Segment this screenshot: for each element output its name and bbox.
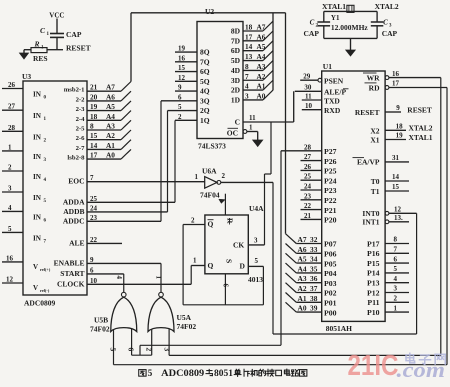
svg-text:4Q: 4Q [200, 87, 210, 96]
svg-text:X2: X2 [370, 126, 379, 135]
svg-text:V: V [33, 263, 38, 271]
svg-text:39: 39 [310, 304, 318, 313]
svg-text:5: 5 [394, 265, 398, 273]
svg-text:27: 27 [8, 103, 16, 111]
svg-text:1: 1 [193, 257, 197, 265]
svg-text:3: 3 [163, 348, 172, 352]
svg-text:2-2: 2-2 [76, 96, 86, 103]
svg-text:9: 9 [178, 84, 182, 92]
svg-text:21: 21 [304, 212, 312, 220]
svg-text:13.: 13. [394, 214, 403, 222]
svg-text:A5: A5 [106, 102, 115, 111]
svg-text:XTAL2: XTAL2 [375, 2, 399, 11]
svg-text:U4A: U4A [249, 204, 264, 213]
svg-text:A6: A6 [106, 92, 115, 101]
svg-text:A7: A7 [298, 235, 307, 244]
svg-text:1: 1 [8, 143, 12, 151]
svg-text:EOC: EOC [68, 177, 84, 186]
svg-text:P27: P27 [324, 147, 337, 156]
svg-text:CAP: CAP [382, 29, 398, 38]
svg-text:RESET: RESET [355, 108, 380, 117]
svg-text:START: START [60, 269, 84, 278]
svg-text:2D: 2D [231, 86, 241, 95]
svg-text:5: 5 [109, 348, 118, 352]
svg-text:5: 5 [178, 103, 182, 111]
svg-text:U3: U3 [22, 72, 31, 81]
svg-text:RESET: RESET [407, 105, 432, 114]
svg-text:A3: A3 [106, 122, 115, 131]
svg-text:P23: P23 [324, 186, 337, 195]
svg-text:4: 4 [44, 178, 47, 183]
svg-text:IN: IN [33, 213, 42, 221]
svg-text:15: 15 [90, 131, 98, 140]
svg-text:3Q: 3Q [200, 96, 210, 105]
svg-text:RESET: RESET [66, 44, 91, 53]
svg-text:CLOCK: CLOCK [57, 279, 85, 288]
svg-text:A7: A7 [257, 23, 266, 32]
svg-text:4: 4 [8, 204, 12, 212]
svg-text:1: 1 [47, 32, 50, 37]
svg-text:2: 2 [8, 164, 12, 172]
svg-text:4: 4 [394, 275, 398, 283]
svg-text:1: 1 [195, 173, 199, 181]
svg-text:ADC0809: ADC0809 [24, 299, 55, 308]
svg-text:1: 1 [44, 117, 47, 122]
svg-text:74F02: 74F02 [177, 322, 197, 331]
svg-text:IN: IN [33, 133, 42, 141]
svg-text:33: 33 [310, 245, 318, 254]
svg-text:P17: P17 [367, 239, 380, 248]
svg-text:P15: P15 [367, 259, 380, 268]
svg-text:2: 2 [44, 138, 47, 143]
svg-text:P13: P13 [367, 279, 380, 288]
svg-text:3: 3 [394, 285, 398, 293]
svg-text:1Q: 1Q [200, 116, 210, 125]
svg-text:A3: A3 [298, 274, 307, 283]
svg-text:21IC: 21IC [348, 350, 399, 382]
svg-text:CAP: CAP [66, 30, 82, 39]
svg-text:XTAL2: XTAL2 [409, 124, 433, 133]
svg-text:31: 31 [392, 154, 400, 162]
svg-text:RXD: RXD [324, 106, 341, 115]
svg-text:CK: CK [233, 240, 244, 249]
svg-text:29: 29 [303, 73, 311, 81]
svg-text:26: 26 [8, 81, 16, 89]
svg-text:P21: P21 [324, 206, 337, 215]
svg-text:A4: A4 [106, 112, 115, 121]
svg-text:74F04: 74F04 [200, 191, 220, 200]
svg-text:P07: P07 [324, 240, 337, 249]
svg-text:12: 12 [394, 206, 402, 214]
svg-text:8: 8 [245, 62, 249, 71]
svg-text:0: 0 [44, 96, 47, 101]
svg-text:23: 23 [90, 214, 98, 222]
svg-text:7: 7 [90, 174, 94, 182]
svg-text:C: C [310, 19, 315, 27]
svg-text:TXD: TXD [324, 96, 340, 105]
svg-text:7Q: 7Q [200, 57, 210, 66]
svg-text:4: 4 [245, 82, 249, 91]
svg-text:V: V [33, 284, 38, 292]
svg-text:A5: A5 [298, 255, 307, 264]
svg-text:P14: P14 [367, 269, 380, 278]
svg-text:P01: P01 [324, 299, 337, 308]
svg-text:18: 18 [90, 112, 98, 121]
svg-text:IN: IN [33, 173, 42, 181]
svg-text:9: 9 [90, 256, 94, 264]
svg-text:P00: P00 [324, 308, 337, 317]
svg-text:8Q: 8Q [200, 48, 210, 57]
svg-text:4D: 4D [231, 66, 241, 75]
svg-text:24: 24 [90, 204, 98, 212]
svg-text:37: 37 [310, 284, 318, 293]
svg-text:22: 22 [304, 202, 312, 210]
svg-text:23: 23 [304, 192, 312, 200]
svg-text:P06: P06 [324, 250, 337, 259]
svg-text:28: 28 [8, 124, 16, 132]
svg-text:6: 6 [222, 284, 230, 288]
svg-text:17: 17 [392, 80, 400, 88]
svg-text:11: 11 [249, 114, 256, 122]
svg-text:5: 5 [148, 368, 153, 378]
svg-text:5D: 5D [231, 56, 241, 65]
svg-text:RD: RD [369, 83, 380, 92]
svg-text:3: 3 [44, 158, 47, 163]
svg-text:A2: A2 [298, 284, 307, 293]
svg-text:2: 2 [394, 295, 398, 303]
svg-text:A4: A4 [298, 264, 307, 273]
svg-text:C: C [235, 118, 240, 127]
svg-text:3D: 3D [231, 76, 241, 85]
svg-text:1: 1 [249, 124, 253, 132]
svg-text:8: 8 [90, 122, 94, 131]
svg-text:C: C [40, 26, 46, 35]
svg-text:A0: A0 [298, 304, 307, 313]
svg-text:22: 22 [90, 236, 98, 244]
svg-text:5Q: 5Q [200, 77, 210, 86]
svg-text:6: 6 [394, 255, 398, 263]
svg-text:25: 25 [304, 173, 312, 181]
svg-text:2: 2 [178, 113, 182, 121]
svg-text:A4: A4 [257, 52, 266, 61]
svg-text:T1: T1 [371, 187, 380, 196]
svg-text:A3: A3 [257, 62, 266, 71]
svg-text:XTAL1: XTAL1 [322, 2, 346, 11]
svg-text:19: 19 [396, 132, 404, 140]
svg-text:6Q: 6Q [200, 67, 210, 76]
svg-text:A2: A2 [106, 131, 115, 140]
svg-text:5: 5 [8, 225, 12, 233]
svg-text:A0: A0 [106, 151, 115, 160]
svg-text:6: 6 [127, 348, 136, 352]
svg-text:A6: A6 [257, 32, 266, 41]
svg-text:28: 28 [304, 143, 312, 151]
svg-text:15: 15 [178, 64, 186, 72]
svg-text:ALE: ALE [69, 238, 84, 247]
svg-text:A1: A1 [298, 294, 307, 303]
svg-text:6: 6 [178, 93, 182, 101]
svg-text:P26: P26 [324, 157, 337, 166]
svg-text:18: 18 [396, 123, 404, 131]
svg-text:P03: P03 [324, 279, 337, 288]
svg-text:C: C [383, 19, 388, 27]
svg-text:2-7: 2-7 [76, 145, 86, 152]
svg-text:ref(-): ref(-) [40, 288, 50, 293]
svg-text:IN: IN [33, 91, 42, 99]
svg-text:msb2-1: msb2-1 [64, 87, 85, 94]
svg-text:P24: P24 [324, 176, 337, 185]
svg-text:7: 7 [44, 239, 47, 244]
svg-text:ADDA: ADDA [63, 197, 85, 206]
svg-text:17: 17 [245, 32, 253, 41]
svg-text:P12: P12 [367, 288, 380, 297]
svg-text:2Q: 2Q [200, 106, 210, 115]
svg-text:12.000MHz: 12.000MHz [331, 23, 369, 32]
svg-text:P02: P02 [324, 289, 337, 298]
svg-text:4: 4 [115, 276, 123, 280]
svg-text:7: 7 [394, 246, 398, 254]
svg-text:34: 34 [310, 255, 318, 264]
svg-text:P16: P16 [367, 249, 380, 258]
svg-text:U5A: U5A [177, 313, 192, 322]
svg-text:A1: A1 [106, 141, 115, 150]
svg-text:1D: 1D [231, 95, 241, 104]
svg-text:6D: 6D [231, 46, 241, 55]
svg-text:P04: P04 [324, 269, 337, 278]
svg-text:14: 14 [90, 141, 98, 150]
svg-text:IN: IN [33, 112, 42, 120]
svg-text:A6: A6 [298, 245, 307, 254]
svg-text:R: R [226, 218, 235, 224]
svg-text:IN: IN [33, 153, 42, 161]
svg-text:OC: OC [227, 129, 238, 138]
svg-text:A7: A7 [106, 83, 115, 92]
svg-text:lsb2-8: lsb2-8 [67, 155, 85, 162]
svg-text:4013: 4013 [248, 275, 263, 284]
svg-text:27: 27 [304, 153, 312, 161]
svg-text:ADDB: ADDB [63, 207, 84, 216]
svg-text:P11: P11 [367, 298, 379, 307]
svg-text:5: 5 [255, 257, 259, 265]
svg-text:12: 12 [6, 276, 14, 284]
svg-text:T0: T0 [371, 177, 380, 186]
svg-text:A0: A0 [257, 91, 266, 100]
svg-text:8051AH: 8051AH [326, 324, 352, 333]
svg-text:S: S [225, 259, 234, 263]
svg-text:2-3: 2-3 [76, 106, 86, 113]
svg-text:R: R [34, 40, 40, 49]
svg-text:30: 30 [304, 84, 312, 92]
svg-text:1: 1 [394, 304, 398, 312]
svg-text:A5: A5 [257, 42, 266, 51]
svg-text:P05: P05 [324, 259, 337, 268]
svg-text:38: 38 [310, 294, 318, 303]
svg-text:Q: Q [208, 261, 214, 270]
svg-text:6: 6 [90, 266, 94, 274]
svg-text:IN: IN [33, 194, 42, 202]
svg-text:EA/VP: EA/VP [357, 158, 380, 167]
svg-text:24: 24 [304, 183, 312, 191]
svg-text:WR: WR [367, 73, 381, 82]
svg-text:ref(+): ref(+) [40, 267, 51, 272]
svg-text:CAP: CAP [304, 29, 320, 38]
svg-text:Q: Q [208, 220, 214, 229]
svg-text:74F02: 74F02 [90, 325, 110, 334]
svg-text:25: 25 [90, 195, 98, 203]
svg-text:RES: RES [33, 54, 48, 63]
svg-text:9: 9 [396, 104, 400, 112]
svg-text:32: 32 [310, 235, 318, 244]
svg-text:3: 3 [8, 185, 12, 193]
svg-text:13: 13 [245, 52, 253, 61]
svg-text:VCC: VCC [49, 12, 64, 20]
svg-text:35: 35 [310, 264, 318, 273]
svg-text:8: 8 [394, 236, 398, 244]
svg-text:20: 20 [90, 92, 98, 101]
svg-text:36: 36 [310, 274, 318, 283]
svg-text:3: 3 [245, 91, 249, 100]
svg-text:2: 2 [222, 172, 226, 180]
svg-text:IN: IN [33, 234, 42, 242]
svg-text:10: 10 [305, 102, 313, 110]
svg-text:P25: P25 [324, 167, 337, 176]
svg-text:1: 1 [155, 276, 163, 280]
svg-text:8D: 8D [231, 27, 241, 36]
svg-text:15: 15 [392, 183, 400, 191]
svg-text:7: 7 [245, 72, 249, 81]
svg-text:XTAL1: XTAL1 [409, 133, 433, 142]
svg-text:P20: P20 [324, 216, 337, 225]
svg-text:7D: 7D [231, 36, 241, 45]
svg-text:16: 16 [392, 70, 400, 78]
svg-text:P22: P22 [324, 196, 337, 205]
svg-text:19: 19 [90, 102, 98, 111]
svg-text:.com: .com [397, 357, 446, 382]
svg-text:ENABLE: ENABLE [54, 259, 85, 268]
svg-text:Y1: Y1 [331, 14, 340, 22]
svg-text:U2: U2 [205, 7, 214, 16]
svg-text:A2: A2 [257, 72, 266, 81]
svg-text:14: 14 [392, 173, 400, 181]
svg-text:11: 11 [305, 92, 312, 100]
svg-text:ADC0809: ADC0809 [161, 368, 205, 378]
svg-text:10: 10 [90, 277, 98, 285]
svg-text:21: 21 [90, 83, 98, 92]
svg-text:3: 3 [389, 24, 392, 29]
svg-text:INT1: INT1 [362, 218, 379, 227]
svg-text:2: 2 [191, 217, 195, 225]
svg-text:8051: 8051 [214, 368, 234, 378]
svg-text:16: 16 [178, 54, 186, 62]
svg-text:19: 19 [178, 45, 186, 53]
svg-text:6: 6 [44, 218, 47, 223]
svg-text:14: 14 [245, 42, 253, 51]
svg-text:D: D [240, 261, 246, 270]
svg-text:18: 18 [245, 23, 253, 32]
svg-text:U6A: U6A [202, 167, 217, 176]
svg-text:ADDC: ADDC [63, 216, 85, 225]
svg-text:2-6: 2-6 [76, 135, 86, 142]
svg-text:5: 5 [44, 199, 47, 204]
svg-text:17: 17 [90, 151, 98, 160]
svg-text:PSEN: PSEN [324, 77, 344, 86]
svg-text:2-5: 2-5 [76, 126, 86, 133]
svg-text:74LS373: 74LS373 [198, 142, 226, 151]
svg-text:2-4: 2-4 [76, 116, 86, 123]
svg-text:X1: X1 [370, 136, 379, 145]
svg-text:3: 3 [254, 237, 258, 245]
svg-text:12: 12 [178, 74, 186, 82]
svg-text:16: 16 [6, 254, 14, 262]
svg-text:U1: U1 [323, 62, 332, 71]
svg-text:P10: P10 [367, 308, 380, 317]
svg-text:2: 2 [145, 348, 154, 352]
svg-text:U5B: U5B [94, 316, 108, 325]
svg-text:A1: A1 [257, 82, 266, 91]
svg-text:26: 26 [304, 163, 312, 171]
